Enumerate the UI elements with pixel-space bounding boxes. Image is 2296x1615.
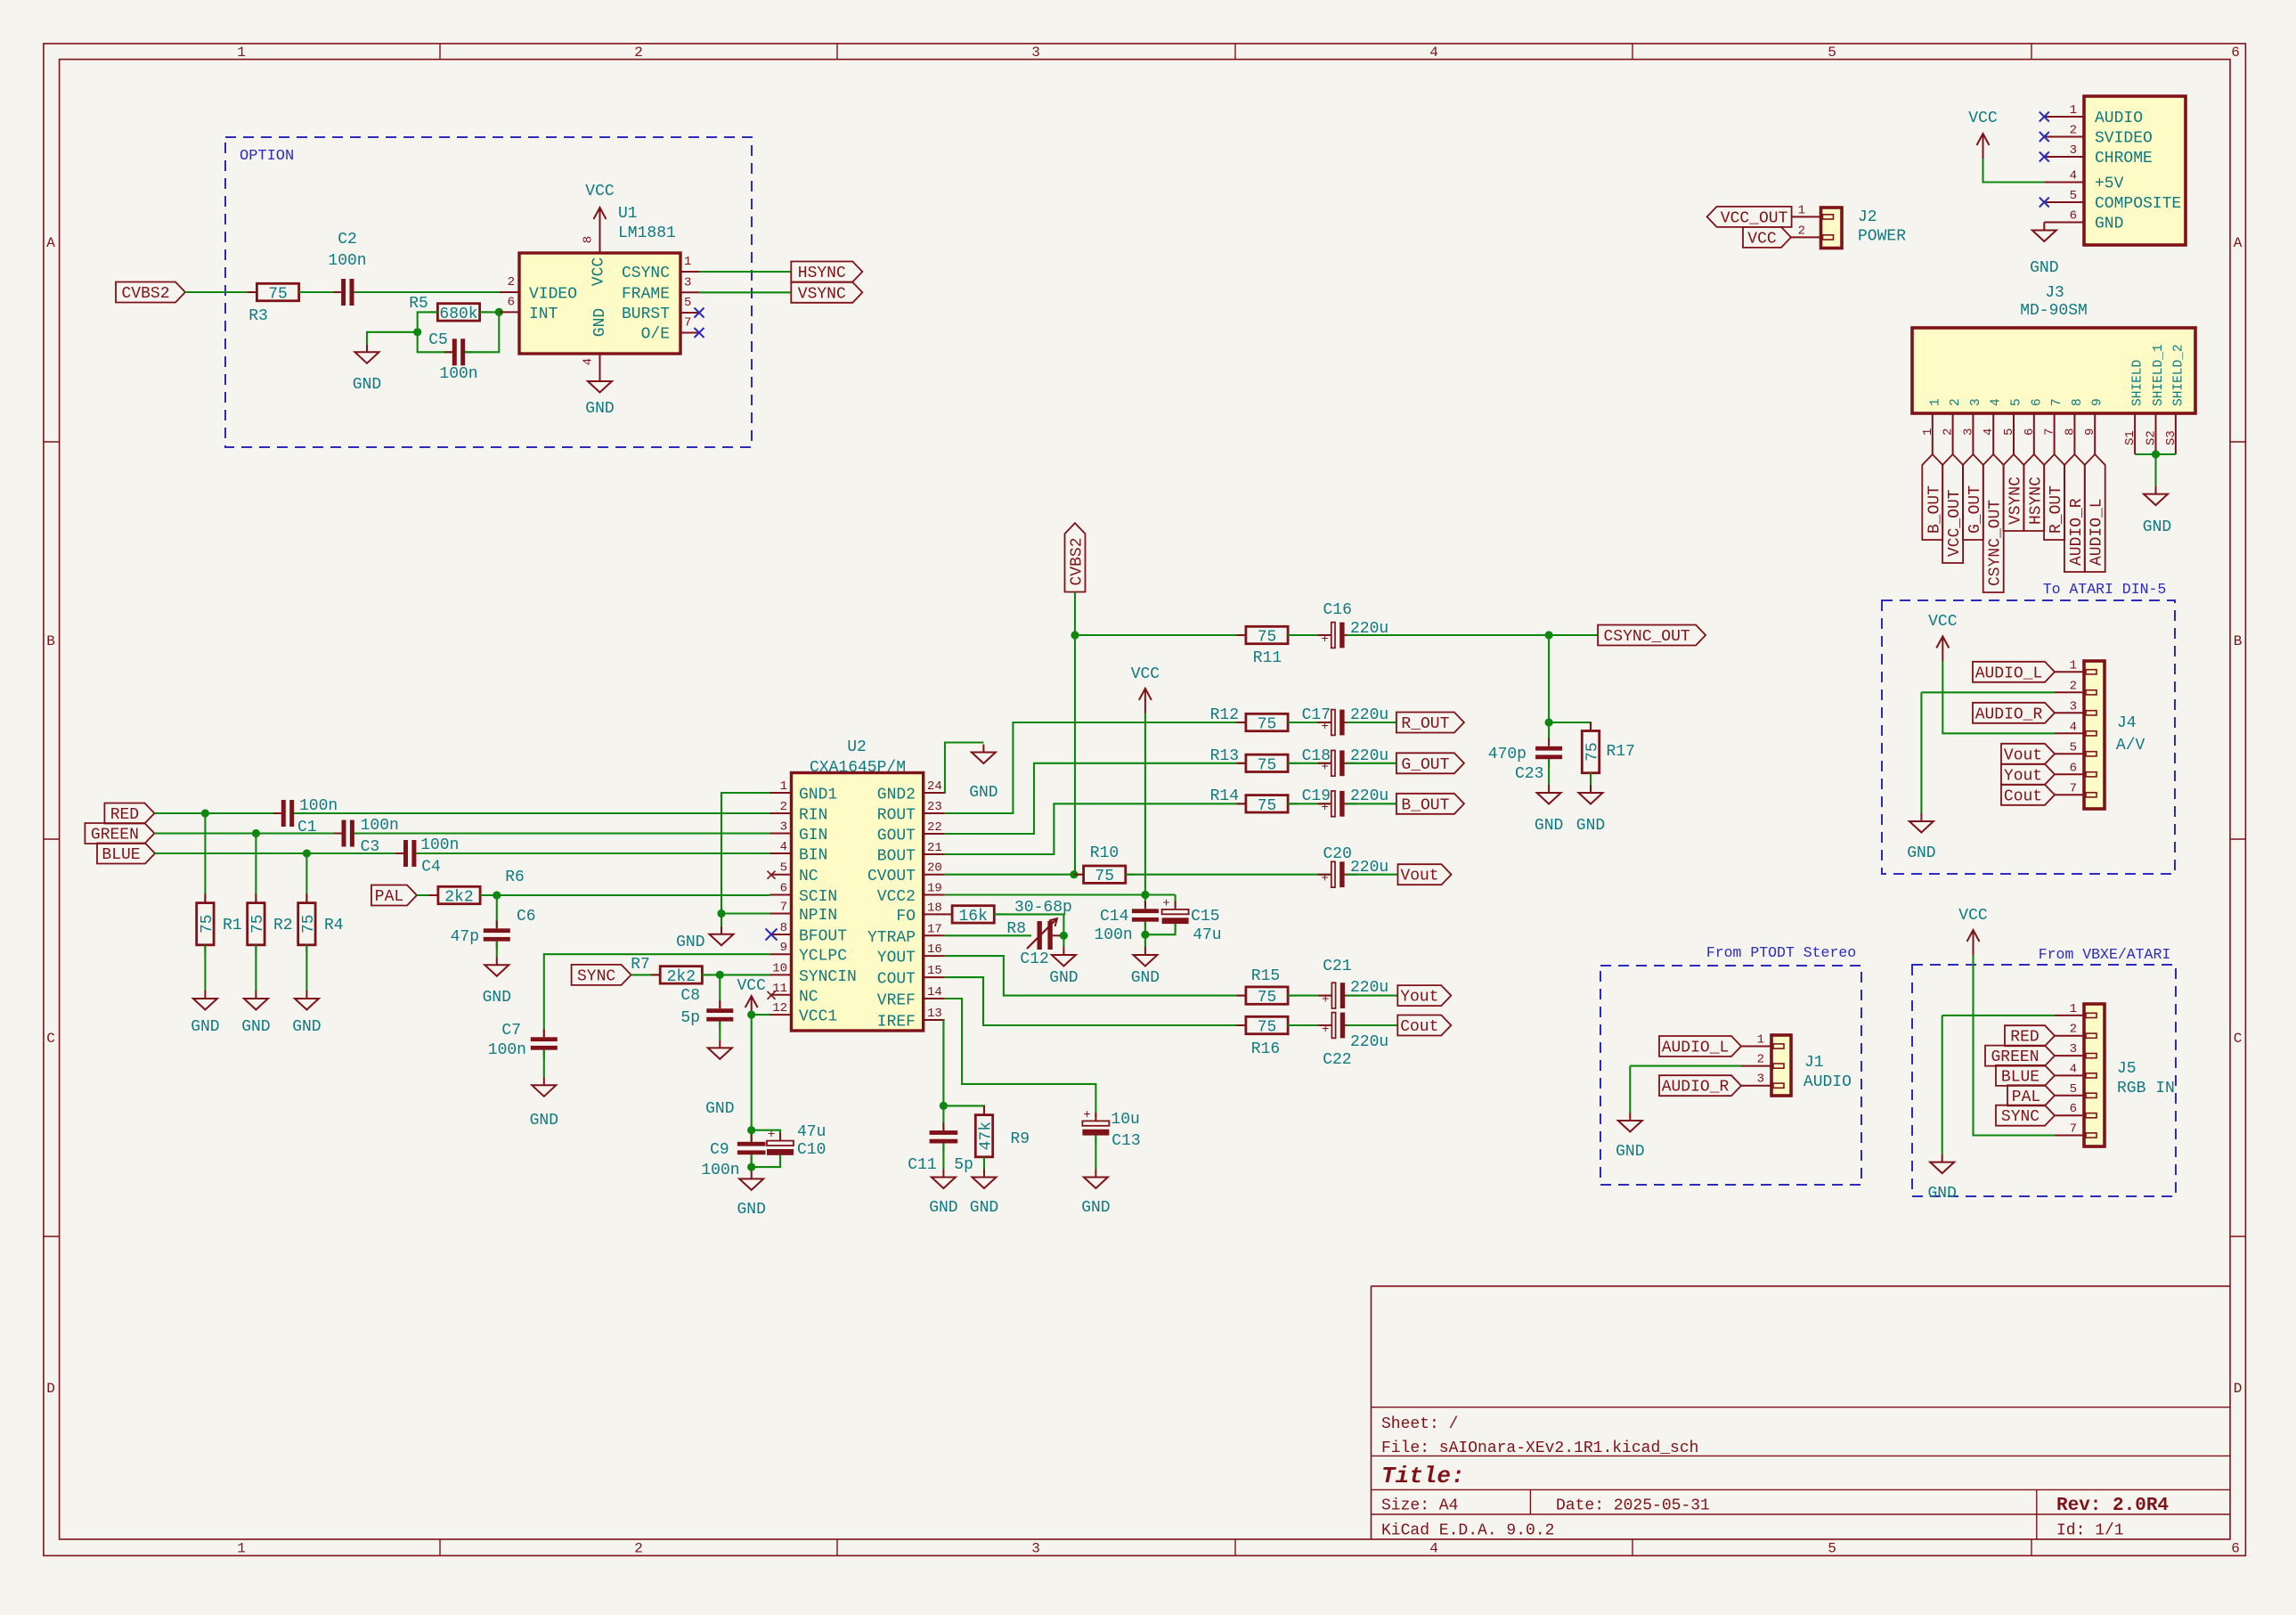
svg-text:75: 75 bbox=[1258, 716, 1277, 734]
pin 6 GND bbox=[2044, 222, 2084, 224]
global label PAL bbox=[371, 885, 417, 906]
svg-text:R11: R11 bbox=[1253, 649, 1282, 667]
svg-text:AUDIO_L: AUDIO_L bbox=[1975, 665, 2043, 682]
svg-text:9: 9 bbox=[780, 941, 787, 955]
svg-text:4: 4 bbox=[2070, 169, 2077, 184]
svg-text:75: 75 bbox=[1095, 868, 1114, 885]
svg-text:12: 12 bbox=[772, 1001, 787, 1015]
svg-text:YTRAP: YTRAP bbox=[867, 929, 916, 947]
svg-text:GND: GND bbox=[241, 1018, 270, 1036]
svg-text:75: 75 bbox=[1584, 742, 1602, 762]
pin 6 bbox=[2055, 773, 2084, 775]
svg-text:To ATARI DIN-5: To ATARI DIN-5 bbox=[2043, 581, 2167, 598]
wire bbox=[945, 893, 1176, 895]
junction bbox=[201, 809, 209, 817]
svg-text:220u: 220u bbox=[1350, 979, 1388, 997]
pin 4 bbox=[1992, 413, 1994, 454]
svg-text:VCC: VCC bbox=[1928, 613, 1958, 631]
svg-text:GOUT: GOUT bbox=[877, 828, 916, 845]
svg-text:8: 8 bbox=[780, 921, 787, 935]
global label Yout bbox=[1397, 985, 1451, 1006]
svg-text:2: 2 bbox=[1949, 398, 1963, 406]
pin 5 bbox=[2055, 753, 2084, 754]
connector J2 bbox=[1821, 208, 1843, 249]
ground bbox=[1144, 947, 1146, 955]
pin 2 bbox=[1791, 236, 1821, 238]
svg-text:B: B bbox=[2234, 633, 2243, 649]
svg-text:S2: S2 bbox=[2145, 430, 2159, 445]
svg-text:+: + bbox=[1321, 872, 1328, 886]
svg-text:C6: C6 bbox=[517, 908, 536, 926]
pin 3 CHROME bbox=[2044, 156, 2084, 158]
wire bbox=[1942, 1015, 2055, 1016]
pin 9 bbox=[2094, 413, 2096, 454]
svg-text:2: 2 bbox=[1798, 224, 1805, 238]
svg-text:19: 19 bbox=[927, 882, 942, 896]
junction bbox=[747, 1011, 755, 1019]
svg-text:3: 3 bbox=[1969, 398, 1983, 406]
From VBXE/ATARI dashed box bbox=[1912, 965, 2176, 1196]
wire bbox=[1347, 1024, 1397, 1026]
svg-text:GND1: GND1 bbox=[799, 787, 837, 804]
svg-text:AUDIO_R: AUDIO_R bbox=[1975, 706, 2043, 723]
wire bbox=[1590, 773, 1592, 785]
pin 10 SYNCIN bbox=[770, 974, 792, 975]
ground bbox=[366, 344, 368, 352]
svg-text:U2: U2 bbox=[847, 738, 867, 756]
svg-text:5p: 5p bbox=[680, 1009, 700, 1027]
global label HSYNC (vertical) bbox=[2023, 454, 2044, 531]
ground bbox=[983, 1170, 985, 1178]
pin 1 AUDIO bbox=[2044, 116, 2084, 118]
pin 9 YCLPC bbox=[770, 953, 792, 955]
svg-text:6: 6 bbox=[2231, 1541, 2240, 1557]
svg-text:C14: C14 bbox=[1100, 908, 1128, 926]
pin 14 VREF bbox=[924, 998, 945, 999]
wire bbox=[154, 832, 342, 834]
global label Cout bbox=[2001, 785, 2055, 805]
global label AUDIO_L bbox=[1973, 662, 2055, 682]
capacitor C10 (polarized) bbox=[779, 1132, 781, 1140]
svg-text:7: 7 bbox=[2070, 1122, 2077, 1137]
svg-text:8: 8 bbox=[2071, 398, 2085, 406]
global label Vout bbox=[1398, 864, 1452, 885]
svg-text:R2: R2 bbox=[273, 917, 293, 934]
wire bbox=[945, 999, 1096, 1118]
wire bbox=[1288, 722, 1331, 723]
svg-text:GND: GND bbox=[969, 784, 997, 802]
wire bbox=[294, 812, 770, 814]
wire bbox=[185, 291, 256, 293]
svg-text:SYNC: SYNC bbox=[577, 967, 615, 985]
wire bbox=[418, 312, 438, 331]
wire bbox=[154, 812, 281, 814]
svg-text:Date: 2025-05-31: Date: 2025-05-31 bbox=[1556, 1497, 1710, 1515]
global label PAL bbox=[2007, 1085, 2055, 1105]
svg-text:B: B bbox=[46, 633, 55, 649]
svg-text:23: 23 bbox=[927, 800, 942, 814]
svg-text:IREF: IREF bbox=[877, 1014, 916, 1032]
svg-text:75: 75 bbox=[249, 914, 267, 934]
svg-text:From PTODT Stereo: From PTODT Stereo bbox=[1706, 944, 1856, 961]
wire bbox=[299, 291, 342, 293]
capacitor C1 bbox=[273, 812, 281, 814]
svg-text:75: 75 bbox=[1258, 756, 1277, 774]
svg-text:A: A bbox=[46, 235, 55, 251]
svg-text:10u: 10u bbox=[1111, 1111, 1139, 1129]
global label HSYNC bbox=[791, 262, 862, 282]
svg-text:4: 4 bbox=[1990, 398, 2004, 406]
svg-text:2: 2 bbox=[780, 800, 787, 814]
svg-text:GND: GND bbox=[970, 1199, 998, 1217]
svg-text:4: 4 bbox=[2070, 720, 2077, 734]
pin 3 bbox=[2055, 1055, 2084, 1056]
wire bbox=[943, 1105, 984, 1115]
wire bbox=[416, 852, 769, 854]
junction bbox=[413, 328, 421, 336]
svg-text:7: 7 bbox=[2070, 781, 2077, 795]
svg-text:C20: C20 bbox=[1323, 845, 1352, 863]
svg-text:GND: GND bbox=[585, 400, 614, 418]
resistor R9 bbox=[983, 1105, 985, 1114]
svg-text:COUT: COUT bbox=[877, 971, 916, 989]
svg-text:100n: 100n bbox=[361, 817, 399, 835]
capacitor C22 bbox=[1318, 1024, 1331, 1026]
svg-text:VCC: VCC bbox=[590, 257, 608, 287]
pin 6 INT bbox=[500, 311, 519, 313]
wire bbox=[1346, 634, 1598, 636]
svg-text:3: 3 bbox=[1757, 1073, 1764, 1087]
svg-text:17: 17 bbox=[927, 922, 942, 936]
svg-text:COMPOSITE: COMPOSITE bbox=[2095, 195, 2181, 213]
ground bbox=[599, 373, 601, 381]
junction bbox=[1141, 891, 1149, 899]
svg-text:Yout: Yout bbox=[2004, 767, 2042, 785]
pin 18 FO bbox=[924, 913, 945, 915]
wire bbox=[1346, 763, 1396, 764]
svg-text:FO: FO bbox=[896, 908, 916, 926]
junction bbox=[1545, 631, 1553, 639]
wire bbox=[983, 1157, 985, 1170]
ground bbox=[2043, 223, 2045, 231]
svg-text:CXA1645P/M: CXA1645P/M bbox=[810, 759, 906, 777]
global label VSYNC (vertical) bbox=[2004, 454, 2024, 531]
pin 5 bbox=[2055, 1095, 2084, 1097]
svg-text:S1: S1 bbox=[2123, 430, 2137, 445]
wire bbox=[1548, 760, 1550, 786]
svg-text:4: 4 bbox=[780, 840, 787, 854]
svg-text:5: 5 bbox=[2070, 1082, 2077, 1097]
svg-text:7: 7 bbox=[2050, 398, 2064, 406]
svg-text:NC: NC bbox=[799, 988, 818, 1006]
svg-text:3: 3 bbox=[2070, 1042, 2077, 1056]
svg-text:100n: 100n bbox=[488, 1041, 526, 1059]
svg-text:B_OUT: B_OUT bbox=[1401, 796, 1449, 814]
wire bbox=[719, 975, 721, 1008]
resistor R2 bbox=[255, 834, 256, 904]
svg-text:RIN: RIN bbox=[799, 807, 827, 825]
wire bbox=[1346, 722, 1396, 723]
svg-text:75: 75 bbox=[300, 914, 318, 934]
pin 2 RIN bbox=[770, 812, 792, 814]
svg-text:SYNC: SYNC bbox=[2001, 1108, 2040, 1126]
resistor R16 bbox=[1237, 1024, 1246, 1026]
svg-text:GND: GND bbox=[1049, 969, 1078, 987]
svg-text:1: 1 bbox=[1798, 203, 1805, 217]
wire bbox=[751, 1167, 753, 1170]
svg-text:100n: 100n bbox=[328, 252, 366, 270]
no-connect bbox=[2040, 198, 2049, 208]
svg-text:A: A bbox=[2234, 235, 2243, 251]
svg-text:VCC: VCC bbox=[1968, 110, 1998, 127]
pin 7 bbox=[2055, 794, 2084, 795]
ground bbox=[1095, 1170, 1096, 1178]
pin 3 bbox=[1741, 1085, 1771, 1087]
svg-text:C9: C9 bbox=[710, 1141, 729, 1159]
svg-text:75: 75 bbox=[199, 914, 216, 934]
svg-text:INT: INT bbox=[529, 306, 558, 323]
svg-text:47k: 47k bbox=[978, 1122, 996, 1150]
svg-text:100n: 100n bbox=[701, 1162, 739, 1179]
global label AUDIO_R bbox=[1659, 1075, 1741, 1096]
svg-text:R14: R14 bbox=[1210, 787, 1239, 805]
junction bbox=[1545, 718, 1553, 726]
pin S3 SHIELD bbox=[2175, 413, 2177, 454]
svg-text:R9: R9 bbox=[1011, 1130, 1030, 1148]
pin 21 BOUT bbox=[924, 853, 945, 855]
svg-text:C17: C17 bbox=[1302, 706, 1331, 724]
svg-text:D: D bbox=[2234, 1381, 2243, 1397]
svg-text:J1: J1 bbox=[1804, 1054, 1824, 1072]
global label CVBS2 bbox=[116, 282, 185, 303]
To ATARI DIN-5 dashed box bbox=[1882, 600, 2175, 874]
wire bbox=[544, 954, 770, 1037]
wire bbox=[1288, 803, 1331, 804]
svg-text:6: 6 bbox=[2070, 1102, 2077, 1116]
svg-text:R_OUT: R_OUT bbox=[1401, 715, 1449, 733]
wire bbox=[699, 271, 791, 273]
svg-text:3: 3 bbox=[780, 820, 787, 835]
wire bbox=[1942, 661, 2055, 733]
svg-text:7: 7 bbox=[684, 316, 691, 330]
svg-text:+: + bbox=[1322, 992, 1329, 1007]
global label BLUE bbox=[97, 844, 155, 864]
svg-text:C21: C21 bbox=[1323, 958, 1351, 975]
wire bbox=[751, 1154, 753, 1167]
pin 3 bbox=[2055, 712, 2084, 714]
svg-text:5p: 5p bbox=[954, 1156, 973, 1174]
svg-text:47p: 47p bbox=[451, 928, 479, 946]
global label B_OUT bbox=[1396, 794, 1464, 814]
wire bbox=[255, 945, 256, 991]
svg-text:GND: GND bbox=[1576, 817, 1605, 835]
svg-text:1: 1 bbox=[684, 255, 691, 269]
no-connect bbox=[2040, 112, 2049, 122]
svg-text:GND: GND bbox=[2143, 518, 2171, 536]
pin 1 bbox=[2055, 1015, 2084, 1016]
pin 12 VCC1 bbox=[770, 1014, 792, 1015]
svg-text:R6: R6 bbox=[505, 869, 525, 886]
svg-text:14: 14 bbox=[927, 985, 942, 999]
global label GREEN bbox=[85, 823, 154, 844]
svg-text:RED: RED bbox=[2010, 1029, 2039, 1047]
svg-text:NPIN: NPIN bbox=[799, 907, 837, 925]
svg-text:2: 2 bbox=[634, 45, 643, 61]
svg-text:3: 3 bbox=[1031, 45, 1040, 61]
svg-text:R10: R10 bbox=[1090, 844, 1119, 862]
svg-text:470p: 470p bbox=[1488, 746, 1527, 763]
wire bbox=[721, 914, 722, 926]
svg-text:2: 2 bbox=[2070, 679, 2077, 693]
pin 7 O/E bbox=[680, 332, 699, 334]
svg-text:75: 75 bbox=[1258, 797, 1277, 815]
wire bbox=[752, 1154, 780, 1167]
ground bbox=[1942, 1154, 1943, 1162]
svg-text:BLUE: BLUE bbox=[102, 846, 140, 864]
svg-text:24: 24 bbox=[927, 779, 942, 794]
pin S1 SHIELD bbox=[2134, 413, 2136, 454]
svg-text:7: 7 bbox=[2043, 428, 2057, 436]
svg-text:GND: GND bbox=[2095, 216, 2123, 233]
ground bbox=[721, 926, 722, 934]
svg-text:+: + bbox=[1322, 1023, 1329, 1037]
svg-text:4: 4 bbox=[2070, 1062, 2077, 1076]
svg-text:CSYNC_OUT: CSYNC_OUT bbox=[1987, 500, 2005, 586]
svg-text:100n: 100n bbox=[1094, 926, 1132, 944]
no-connect bbox=[2040, 132, 2049, 142]
junction bbox=[495, 308, 503, 316]
svg-text:A/V: A/V bbox=[2116, 737, 2145, 754]
ic U1 LM1881 bbox=[519, 253, 680, 354]
capacitor C9 bbox=[751, 1130, 753, 1142]
pin 2 bbox=[2055, 1035, 2084, 1037]
wire bbox=[417, 894, 437, 896]
svg-text:1: 1 bbox=[2070, 658, 2077, 673]
wire bbox=[1548, 722, 1550, 740]
global label BLUE bbox=[1996, 1065, 2055, 1086]
svg-text:9: 9 bbox=[2083, 428, 2097, 436]
pin 1 bbox=[2055, 671, 2084, 673]
svg-text:2k2: 2k2 bbox=[667, 968, 696, 986]
wire bbox=[480, 894, 769, 896]
wire bbox=[465, 312, 499, 352]
pin 6 SCIN bbox=[770, 894, 792, 896]
svg-text:R17: R17 bbox=[1607, 743, 1635, 761]
title block bbox=[1371, 1286, 1372, 1539]
svg-text:C12: C12 bbox=[1020, 950, 1048, 968]
global label AUDIO_R (vertical) bbox=[2064, 454, 2085, 572]
wire bbox=[418, 332, 452, 353]
svg-text:OPTION: OPTION bbox=[240, 148, 294, 165]
pin 5 BURST bbox=[680, 312, 699, 314]
wire bbox=[2154, 454, 2156, 486]
wire bbox=[1144, 895, 1146, 907]
pin 1 bbox=[1791, 216, 1821, 217]
svg-text:G_OUT: G_OUT bbox=[1401, 756, 1449, 774]
wire bbox=[305, 945, 307, 991]
global label RED bbox=[104, 803, 154, 824]
svg-text:AUDIO_R: AUDIO_R bbox=[1662, 1079, 1730, 1097]
svg-text:3: 3 bbox=[1031, 1541, 1040, 1557]
pin 7 bbox=[2054, 413, 2056, 454]
resistor R10 bbox=[1074, 874, 1083, 876]
global label CVBS2 (vertical) bbox=[1065, 523, 1086, 591]
svg-text:1: 1 bbox=[237, 45, 246, 61]
svg-text:+: + bbox=[768, 1128, 775, 1142]
capacitor C23 bbox=[1548, 738, 1550, 746]
pin 22 GOUT bbox=[924, 833, 945, 835]
capacitor C8 bbox=[719, 1000, 721, 1008]
wire bbox=[702, 974, 769, 975]
svg-text:C2: C2 bbox=[338, 231, 357, 249]
pin 2 bbox=[1741, 1065, 1771, 1067]
svg-text:2: 2 bbox=[1757, 1053, 1764, 1067]
svg-text:YCLPC: YCLPC bbox=[799, 948, 847, 966]
ground bbox=[305, 991, 307, 999]
wire bbox=[1630, 1065, 1741, 1067]
wire bbox=[1144, 714, 1146, 895]
ground bbox=[719, 1040, 721, 1048]
svg-text:Cout: Cout bbox=[2004, 787, 2042, 805]
svg-text:GIN: GIN bbox=[799, 827, 827, 844]
global label G_OUT (vertical) bbox=[1963, 454, 1983, 540]
no-connect bbox=[695, 308, 704, 318]
svg-text:9: 9 bbox=[2091, 398, 2105, 406]
ground bbox=[496, 957, 498, 965]
no-connect pin5 bbox=[768, 871, 776, 879]
resistor R7 bbox=[651, 974, 660, 975]
From PTODT Stereo dashed box bbox=[1600, 966, 1861, 1185]
connector J3 pin side bbox=[1912, 328, 2195, 413]
pin S2 SHIELD bbox=[2155, 413, 2157, 454]
wire bbox=[1126, 874, 1331, 876]
svg-text:VCC1: VCC1 bbox=[799, 1008, 837, 1026]
svg-text:GND: GND bbox=[2030, 259, 2058, 277]
svg-text:R12: R12 bbox=[1210, 706, 1239, 724]
svg-text:C15: C15 bbox=[1191, 908, 1219, 926]
capacitor C14 bbox=[1144, 901, 1146, 909]
svg-text:+: + bbox=[1083, 1108, 1090, 1122]
pin 1 GND1 bbox=[770, 792, 792, 794]
wire bbox=[1942, 1015, 1943, 1154]
svg-text:GREEN: GREEN bbox=[91, 827, 139, 844]
svg-text:RED: RED bbox=[110, 806, 139, 824]
global label R_OUT (vertical) bbox=[2044, 454, 2064, 540]
pin 4 bbox=[2055, 1074, 2084, 1076]
wire bbox=[204, 945, 206, 991]
connector J4 A/V bbox=[2084, 661, 2105, 809]
wire bbox=[496, 942, 498, 957]
svg-text:C10: C10 bbox=[797, 1141, 826, 1159]
svg-text:C23: C23 bbox=[1515, 765, 1543, 783]
svg-text:6: 6 bbox=[2023, 428, 2037, 436]
junction bbox=[1070, 870, 1078, 878]
pin 2 VIDEO bbox=[500, 291, 519, 293]
svg-text:C4: C4 bbox=[421, 859, 441, 877]
svg-text:5: 5 bbox=[2010, 398, 2024, 406]
resistor 16k (FO filter) bbox=[943, 913, 952, 915]
global label VCC_OUT (vertical) bbox=[1942, 454, 1963, 563]
svg-text:C7: C7 bbox=[501, 1022, 521, 1040]
connector J5 RGB IN bbox=[2084, 1004, 2105, 1146]
resistor R4 bbox=[305, 853, 307, 903]
capacitor C3 bbox=[334, 833, 342, 835]
power VCC bbox=[1942, 636, 1943, 661]
capacitor C19 bbox=[1318, 803, 1331, 804]
ground bbox=[1629, 1113, 1631, 1121]
svg-text:5: 5 bbox=[1828, 1541, 1836, 1557]
svg-text:11: 11 bbox=[772, 982, 787, 996]
